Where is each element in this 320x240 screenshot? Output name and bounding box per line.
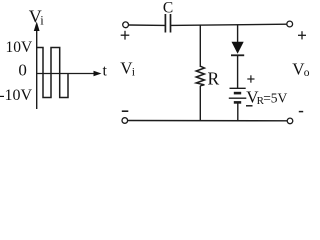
y-axis arrowhead (34, 22, 40, 32)
plus top-right (298, 31, 306, 39)
svg-text:0: 0 (18, 61, 27, 80)
terminal bottom-left (122, 118, 128, 124)
diode D (cathode down) (232, 42, 244, 54)
svg-text:R: R (208, 69, 220, 89)
svg-text:-10V: -10V (0, 87, 33, 104)
wire resistor to bottom (199, 86, 201, 121)
waveform graph: y-axis Vi (36, 29, 38, 109)
svg-text:10V: 10V (6, 39, 34, 56)
terminal top-right (287, 21, 293, 27)
svg-text:i: i (40, 14, 44, 28)
terminal bottom-right (287, 118, 293, 124)
plus at battery (247, 75, 254, 82)
label Vi (input port) (120, 59, 136, 79)
capacitor C plates (165, 14, 170, 33)
label Vo (output port) (292, 59, 310, 79)
minus bottom-left (122, 110, 129, 112)
label VR=5V (246, 88, 288, 108)
x-axis (t axis) (37, 73, 96, 75)
wire capacitor to top-right terminal (171, 24, 287, 25)
svg-text:=5V: =5V (263, 91, 287, 106)
plus top-left (121, 31, 130, 40)
label Vi (graph) (29, 7, 44, 28)
bottom wire (128, 120, 288, 122)
wire diode to battery (237, 55, 239, 88)
svg-text:o: o (304, 67, 310, 79)
wire top junction to diode (237, 24, 239, 42)
wire battery to bottom (237, 102, 239, 120)
svg-text:t: t (103, 63, 108, 80)
square wave Vi(t) (37, 48, 68, 98)
resistor R zigzag (196, 66, 204, 86)
terminal top-left (123, 22, 129, 28)
wire top-left to capacitor (129, 24, 166, 26)
wire top junction to resistor (199, 25, 201, 67)
minus bottom-right (299, 111, 303, 113)
x-axis arrowhead (94, 71, 102, 77)
battery VR (two cells) (229, 88, 247, 102)
svg-text:C: C (163, 0, 173, 16)
